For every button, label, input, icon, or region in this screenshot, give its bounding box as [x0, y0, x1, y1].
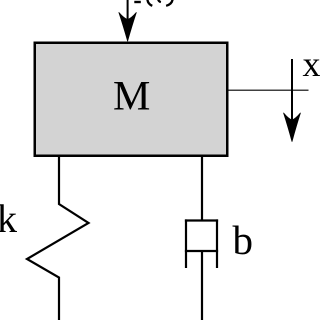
force F(t) label remnant: bottom of letter F	[134, 1, 141, 3]
displacement reference line	[228, 89, 309, 91]
x arrowhead	[284, 113, 301, 142]
label b	[233, 226, 252, 255]
force F(t) label remnant: bottom of t	[158, 0, 161, 2]
damper rod bottom	[201, 251, 203, 320]
damper cylinder right wall	[216, 219, 218, 268]
force F(t) label remnant: bottom of (	[147, 0, 152, 6]
mass block M	[35, 43, 228, 156]
force arrowhead	[119, 13, 136, 42]
x arrow shaft	[291, 59, 293, 122]
label M	[114, 82, 149, 110]
damper piston plate	[185, 250, 218, 252]
damper cylinder left wall	[185, 219, 187, 268]
force F(t) label remnant: bottom of )	[166, 0, 173, 6]
spring k	[27, 155, 89, 320]
label k	[0, 204, 17, 232]
damper rod top	[201, 155, 203, 220]
force arrow shaft	[127, 0, 129, 20]
label x	[303, 59, 320, 76]
damper cylinder top	[185, 219, 218, 221]
